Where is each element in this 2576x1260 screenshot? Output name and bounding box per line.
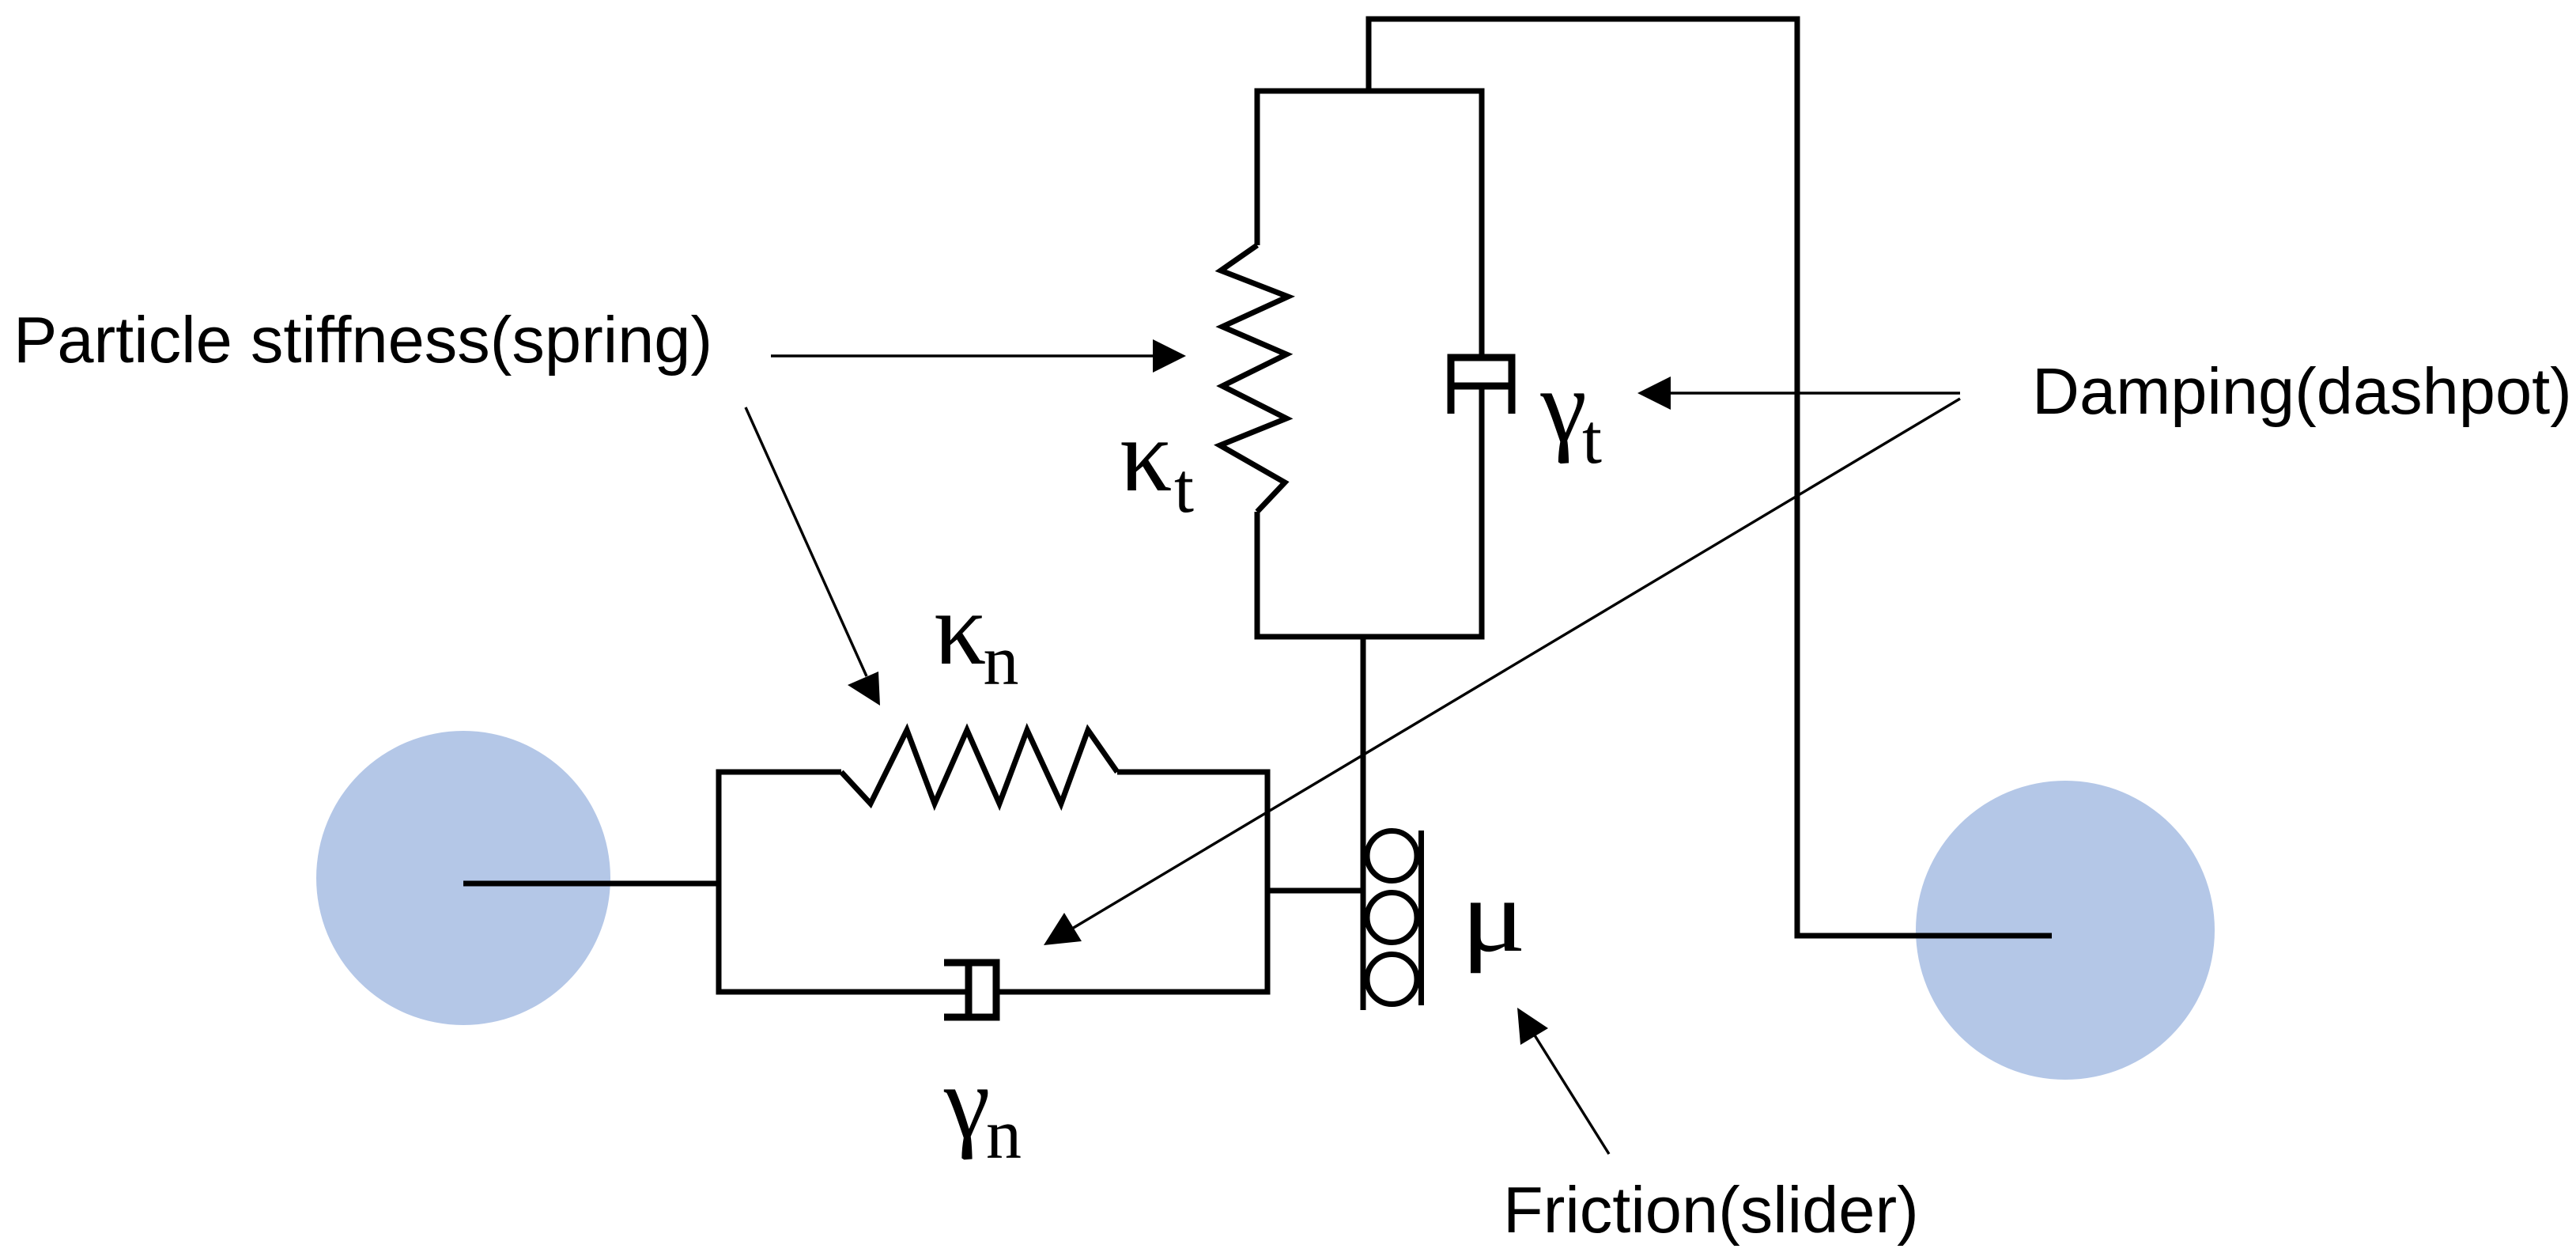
particle P2 (right sphere) xyxy=(1916,781,2215,1080)
wire: top horizontal from kt box to long right wire xyxy=(1366,17,1798,22)
arrow: Damping to gamma-n (long diagonal) xyxy=(1072,399,1960,929)
arrow: Particle stiffness to Kt spring (horizontal) xyxy=(771,354,1154,357)
particle P1 (left sphere) xyxy=(316,731,610,1025)
dashpot gamma-t piston plate xyxy=(1448,383,1515,390)
node: normal unit box right edge xyxy=(1265,770,1271,995)
slider friction element: right rail xyxy=(1418,831,1424,1005)
node: tangential unit box bottom edge xyxy=(1257,634,1482,640)
wire: tangential box left edge upper segment xyxy=(1255,89,1260,246)
arrow: Friction label to slider xyxy=(1535,1035,1609,1154)
arrow: Damping to gamma-t (horizontal) xyxy=(1671,392,1960,394)
wire from particle P1 to normal-model box xyxy=(463,881,719,887)
svg-text:t: t xyxy=(1174,449,1194,528)
svg-text:μ: μ xyxy=(1461,858,1527,974)
svg-text:γ: γ xyxy=(943,1044,990,1160)
wire from normal box to slider rail xyxy=(1267,888,1363,894)
node: tangential unit box (kt / gamma-t) top edge xyxy=(1257,89,1482,94)
slider roller circle 2 xyxy=(1367,893,1417,943)
slider roller circle 3 xyxy=(1367,955,1417,1005)
wire: normal box bottom edge right segment xyxy=(996,989,1271,995)
svg-text:n: n xyxy=(986,1095,1022,1174)
wire: tangential box right edge lower segment xyxy=(1479,386,1485,640)
dashpot gamma-n piston plate xyxy=(965,959,973,1020)
node: normal unit box (kn / gamma-n) left edge xyxy=(716,770,722,995)
svg-text:Particle stiffness(spring): Particle stiffness(spring) xyxy=(13,303,712,376)
svg-text:t: t xyxy=(1582,400,1602,479)
wire: bottom horizontal into particle P2 xyxy=(1795,933,2053,939)
svg-text:Friction(slider): Friction(slider) xyxy=(1503,1173,1919,1247)
svg-text:κ: κ xyxy=(934,570,987,687)
wire: long vertical right wire down to particle P2 xyxy=(1795,17,1800,936)
svg-text:Damping(dashpot): Damping(dashpot) xyxy=(2032,354,2572,428)
arrow: Particle stiffness to Kn spring (diagonal) xyxy=(746,407,867,676)
dashpot gamma-t (tangential damper cup) xyxy=(1451,358,1512,414)
spring Kt (tangential stiffness zigzag) xyxy=(1220,245,1288,512)
spring Kn (normal stiffness zigzag) xyxy=(841,730,1117,804)
slider roller circle 1 xyxy=(1367,831,1417,881)
svg-text:κ: κ xyxy=(1120,397,1173,513)
dashpot gamma-n (normal damper cup) xyxy=(944,963,996,1017)
wire: normal box top edge left segment xyxy=(716,770,842,775)
svg-text:γ: γ xyxy=(1540,348,1587,464)
wire: normal box bottom edge left segment (to dashpot piston) xyxy=(716,989,969,995)
svg-text:n: n xyxy=(984,622,1019,700)
wire: stub from top wire down to kt box top xyxy=(1366,19,1372,91)
wire: tangential box left edge lower segment xyxy=(1255,512,1260,640)
wire: stub from kt box bottom / slider left rail xyxy=(1361,637,1366,1010)
wire: tangential box right edge upper segment (dashpot rod) xyxy=(1479,89,1485,358)
wire: normal box top edge right segment xyxy=(1117,770,1271,775)
